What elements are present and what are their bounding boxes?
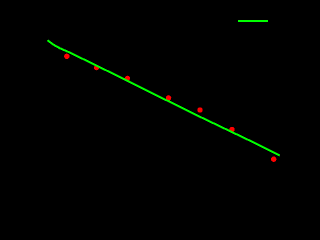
fit line (48, 40, 280, 155)
data point 4 (166, 95, 171, 100)
data point 6 (229, 127, 234, 132)
legend key line (238, 20, 268, 22)
data point 5 (197, 107, 202, 112)
data point 7 (271, 157, 276, 162)
data point 2 (94, 65, 99, 70)
data point 3 (125, 76, 130, 81)
data point 1 (64, 54, 69, 59)
